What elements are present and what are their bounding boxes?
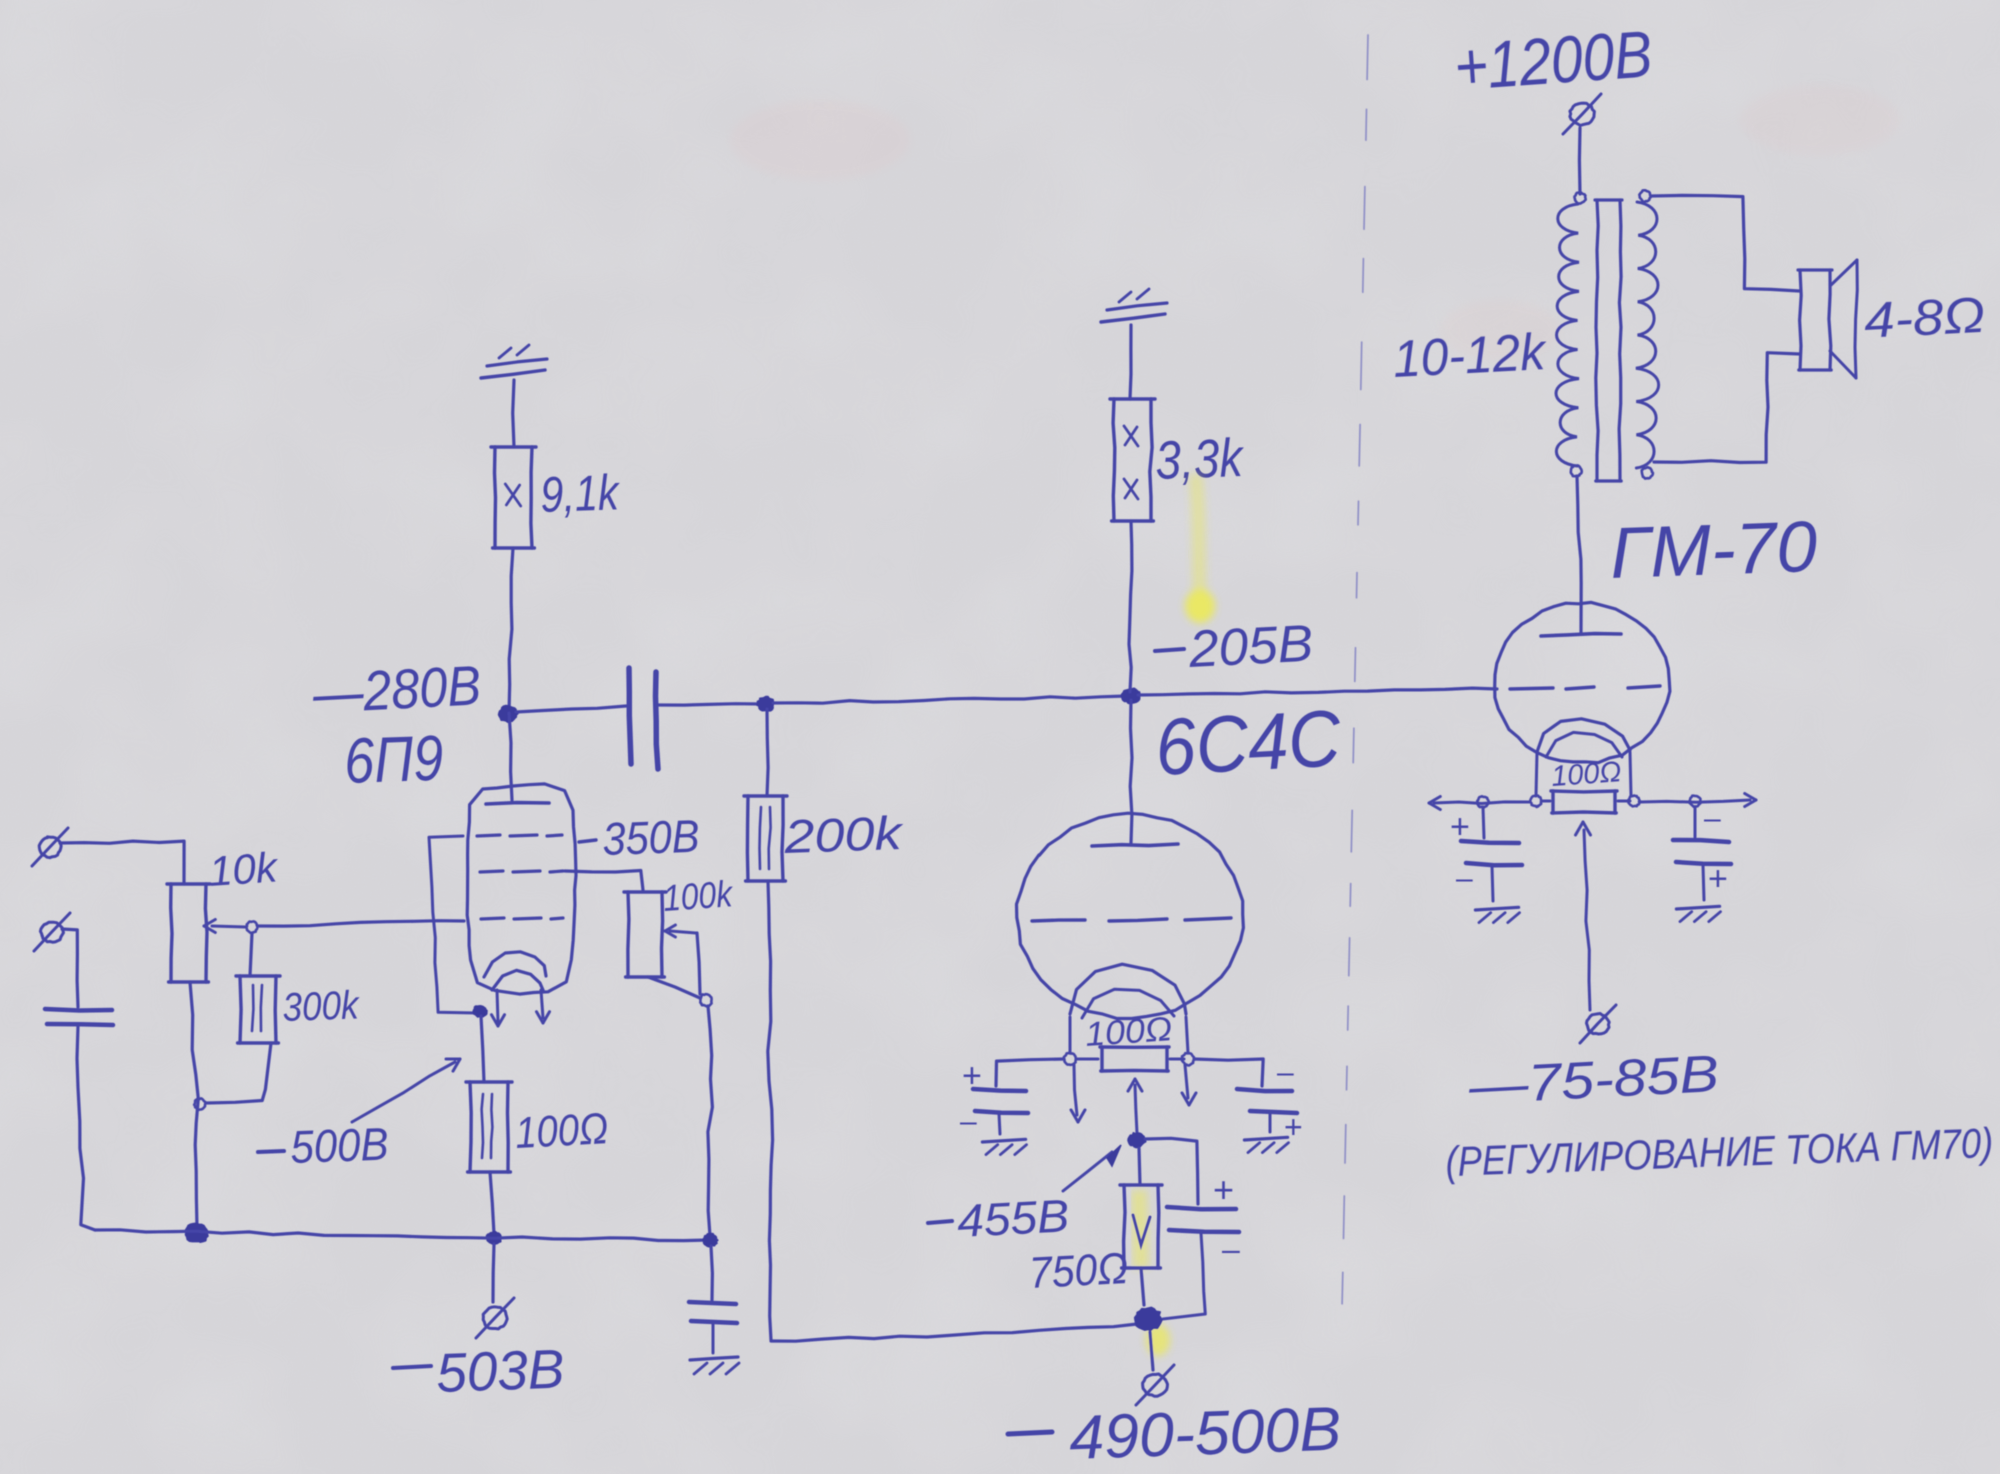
wire resistor 100Ω to bottom bus xyxy=(490,1172,494,1234)
tube 6П9 envelope xyxy=(467,784,576,994)
6П9 grid g1 dashed xyxy=(481,918,504,919)
wire node to coupling capacitor xyxy=(516,706,626,712)
transformer core xyxy=(1595,198,1622,201)
rail junction rings xyxy=(1477,796,1489,807)
svg-text:100Ω: 100Ω xyxy=(514,1104,609,1158)
terminal -490-500В xyxy=(1143,1374,1168,1396)
resistor 200k xyxy=(767,709,768,796)
ground left capacitor (6С4С) xyxy=(982,1139,1025,1142)
transformer secondary winding xyxy=(1639,190,1650,202)
100k wiper arrow xyxy=(670,931,696,933)
wire grid bus to ГМ-70 grid xyxy=(1138,688,1497,695)
label -205В xyxy=(1155,649,1184,651)
input terminal 1 xyxy=(39,837,61,858)
svg-text:–: – xyxy=(960,1105,977,1138)
resistor 3.3k (6С4С anode load) xyxy=(1110,397,1155,400)
bottom bus wire xyxy=(95,1230,708,1241)
junction ring bus right end xyxy=(703,1234,718,1247)
svg-text:+: + xyxy=(1213,1169,1234,1210)
svg-text:10-12k: 10-12k xyxy=(1392,323,1550,389)
separator dashed line xyxy=(1366,35,1369,80)
6С4С grid dashed xyxy=(1032,920,1085,921)
resistor 750Ω xyxy=(1139,1148,1140,1185)
wire g2 to 100k pot xyxy=(565,871,643,891)
capacitor left (ГМ-70) xyxy=(1483,807,1484,838)
junction dot 6П9 cathode xyxy=(473,1006,486,1017)
label -490-500В xyxy=(1008,1432,1052,1434)
svg-text:6П9: 6П9 xyxy=(343,722,444,797)
resistor 100Ω hum pot (6С4С filament) xyxy=(1100,1045,1169,1049)
wire input terminal 1 to 10k pot xyxy=(60,841,184,884)
ground right (ГМ-70) xyxy=(1676,906,1719,909)
svg-text:455В: 455В xyxy=(956,1189,1071,1247)
wire speaker to secondary bottom xyxy=(1654,353,1800,463)
svg-text:+: + xyxy=(1708,860,1728,898)
terminal -503В xyxy=(483,1307,507,1329)
wire 3.3k to grid node xyxy=(1129,521,1132,692)
wire 200k down to -490В bus xyxy=(768,881,773,1340)
input terminal 2 xyxy=(40,922,63,942)
speaker 4-8Ω xyxy=(1798,268,1832,271)
svg-text:+: + xyxy=(962,1057,982,1095)
svg-text:205В: 205В xyxy=(1187,615,1315,679)
wiper up arrow 6С4С xyxy=(1135,1085,1137,1133)
terminal +1200В xyxy=(1570,103,1595,125)
tube ГМ-70 envelope xyxy=(1495,602,1670,762)
ground below decoupling capacitor xyxy=(690,1357,738,1360)
svg-text:9,1k: 9,1k xyxy=(539,464,621,523)
input capacitor xyxy=(45,1009,112,1011)
ring junction 100k bottom xyxy=(700,994,711,1006)
svg-text:100Ω: 100Ω xyxy=(1550,756,1622,793)
label -350В xyxy=(579,840,596,842)
junction -455В node xyxy=(1128,1133,1145,1147)
svg-text:–: – xyxy=(1277,1056,1294,1089)
10k wiper arrow xyxy=(212,926,246,927)
6С4С cathode rings xyxy=(1064,1053,1076,1065)
filament rail with arrows xyxy=(1434,802,1530,804)
svg-text:500В: 500В xyxy=(290,1118,390,1173)
ГМ-70 cathode legs xyxy=(1536,752,1537,796)
6С4С anode plate and lead xyxy=(1130,700,1132,843)
ring junction pot bottom xyxy=(194,1098,205,1110)
wire cathode to resistor 100Ω xyxy=(481,1016,484,1082)
terminal bias -75-85В xyxy=(1587,1014,1610,1035)
svg-text:+1200В: +1200В xyxy=(1452,16,1655,104)
resistor 9.1k (6П9 anode load) xyxy=(491,445,536,448)
svg-text:+: + xyxy=(1450,808,1470,846)
junction bottom bus -503В tap xyxy=(487,1232,501,1244)
wire 750Ω to -490 node xyxy=(1141,1268,1144,1305)
wire wiper node to 300k xyxy=(250,933,252,976)
resistor 100Ω (6П9 cathode) xyxy=(466,1080,512,1083)
ground (above 3.3k) xyxy=(1101,314,1165,322)
coupling capacitor xyxy=(629,668,631,764)
6П9 heater arrows xyxy=(497,990,498,1022)
wire node to electrolytic capacitor xyxy=(1145,1138,1198,1204)
wire terminal 2 to input capacitor xyxy=(62,929,78,1007)
6П9 grid g2 dashed xyxy=(480,871,503,872)
svg-text:4-8Ω: 4-8Ω xyxy=(1863,287,1987,349)
resistor 100Ω (ГМ-70 filament) xyxy=(1551,789,1617,793)
wire primary to ГМ-70 anode xyxy=(1577,476,1581,632)
wire wiper to 6П9 grid xyxy=(258,921,464,926)
svg-text:–: – xyxy=(1222,1231,1240,1267)
wire left to plus capacitor xyxy=(996,1059,1064,1086)
svg-text:750Ω: 750Ω xyxy=(1028,1244,1129,1298)
bias wiper arrow xyxy=(1584,830,1590,1010)
svg-text:–: – xyxy=(1456,862,1473,895)
wiper node ring xyxy=(246,921,257,933)
node -280V junction xyxy=(499,706,518,722)
electrolytic capacitor (750Ω bypass) xyxy=(1167,1207,1236,1209)
wire across to -490В node xyxy=(771,1324,1137,1341)
6С4С cathode arc xyxy=(1070,964,1186,1014)
svg-text:10k: 10k xyxy=(207,843,280,895)
svg-text:–: – xyxy=(1704,802,1721,835)
junction blob -490-500В xyxy=(1135,1308,1162,1330)
svg-text:ГМ-70: ГМ-70 xyxy=(1609,507,1819,594)
svg-text:100k: 100k xyxy=(662,873,736,919)
transformer primary winding xyxy=(1575,192,1586,203)
svg-text:200k: 200k xyxy=(782,806,905,863)
yellow highlighter streak xyxy=(1139,480,1215,1356)
svg-text:100Ω: 100Ω xyxy=(1084,1010,1173,1054)
label -455В xyxy=(928,1221,952,1223)
6П9 cathode arc xyxy=(484,952,546,977)
svg-text:490-500В: 490-500В xyxy=(1068,1395,1342,1473)
capacitor left of 6С4С xyxy=(973,1089,1026,1091)
wire capacitor to grid node xyxy=(659,704,762,705)
wire input capacitor to bottom bus xyxy=(77,1026,95,1230)
6П9 grid g3 dashed xyxy=(477,835,500,836)
6С4С filament arrows xyxy=(1074,1065,1077,1115)
wire 100k bottom diagonal xyxy=(648,977,700,998)
wire 100k wiper down xyxy=(697,933,700,994)
arrow -500В pointer xyxy=(352,1062,455,1122)
wire pot bottom to bus xyxy=(190,982,198,1228)
junction dot grid bus xyxy=(757,697,773,711)
junction dot at 6С4С grid xyxy=(1122,689,1140,704)
wire blob to terminal xyxy=(1150,1332,1153,1370)
svg-text:—280В: —280В xyxy=(310,653,482,725)
wire right to minus capacitor xyxy=(1194,1059,1263,1086)
wire grid bus to 6С4С grid node xyxy=(773,696,1126,703)
svg-text:300k: 300k xyxy=(282,983,361,1030)
wire junction to decoupling capacitor xyxy=(711,1246,712,1300)
label -500В xyxy=(258,1151,284,1152)
wire ground to resistor 9.1k xyxy=(513,380,514,447)
wire terminal to transformer primary xyxy=(1578,128,1582,194)
svg-text:350В: 350В xyxy=(602,810,701,865)
svg-text:6С4С: 6С4С xyxy=(1153,693,1344,792)
wire junction to -503В terminal xyxy=(493,1244,494,1302)
6П9 g3-cathode strap xyxy=(429,836,477,1013)
arrow -455В pointer xyxy=(1063,1152,1112,1191)
ГМ-70 anode plate xyxy=(1541,634,1621,636)
potentiometer 100k xyxy=(624,890,666,893)
6П9 anode plate and lead xyxy=(509,713,512,800)
resistor 300k xyxy=(236,974,280,977)
wire secondary to speaker top xyxy=(1651,195,1799,291)
capacitor right of 6С4С xyxy=(1237,1089,1292,1091)
wire ground to resistor 3.3k xyxy=(1130,325,1131,399)
capacitor right (ГМ-70) xyxy=(1694,807,1697,837)
wire resistor 9.1k to -280V node xyxy=(509,548,513,713)
ГМ-70 grid dashed xyxy=(1510,688,1553,689)
svg-text:503В: 503В xyxy=(435,1338,565,1404)
ground right capacitor (6С4С) xyxy=(1244,1137,1287,1140)
wire 300k to pot bottom xyxy=(207,1043,271,1103)
decoupling capacitor xyxy=(689,1302,736,1304)
ground (above 9.1k anode resistor) xyxy=(481,370,545,378)
ГМ-70 cathode arc xyxy=(1537,719,1630,752)
potentiometer 10k xyxy=(167,882,210,885)
junction blob bottom-left xyxy=(186,1224,208,1243)
svg-text:+: + xyxy=(1284,1109,1303,1145)
label -503В xyxy=(393,1366,431,1368)
wire 100k node down to bus xyxy=(708,1006,713,1236)
tube 6С4С envelope xyxy=(1017,813,1244,1018)
ground left (ГМ-70) xyxy=(1475,907,1518,910)
